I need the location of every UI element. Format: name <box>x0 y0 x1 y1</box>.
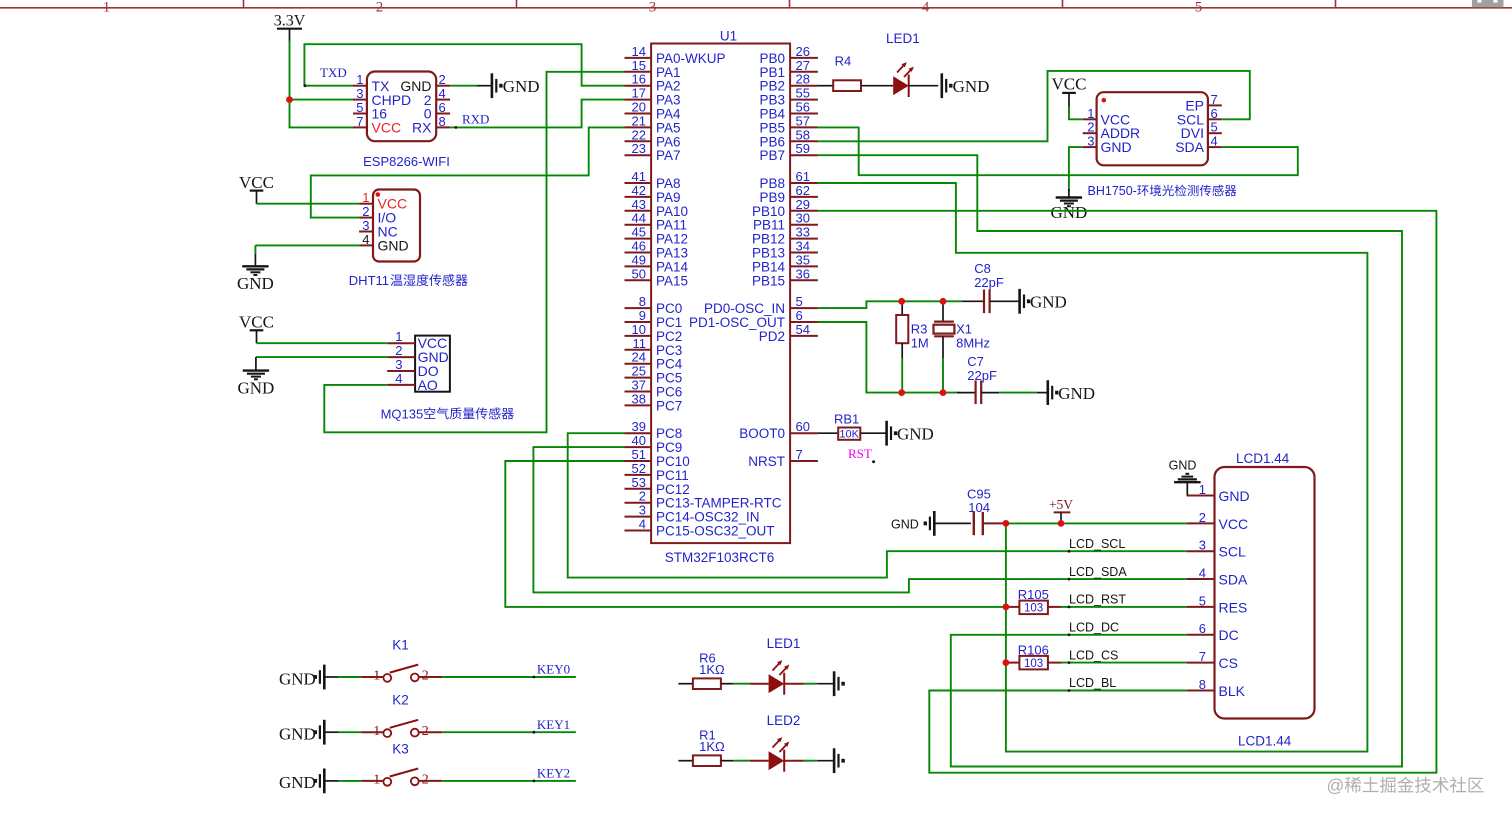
svg-text:BOOT0: BOOT0 <box>739 426 785 441</box>
svg-text:4: 4 <box>922 0 930 16</box>
svg-text:46: 46 <box>632 239 646 254</box>
wire ESP8266 GND pin2 to ground <box>450 85 491 87</box>
svg-text:PA6: PA6 <box>656 134 681 149</box>
svg-text:7: 7 <box>796 447 803 462</box>
pin 16 PA2 of U1 <box>625 72 681 94</box>
crystal X1 8MHz <box>934 301 991 392</box>
svg-text:GND: GND <box>1058 384 1095 403</box>
svg-text:PB5: PB5 <box>759 120 785 135</box>
svg-text:10: 10 <box>632 322 646 337</box>
svg-text:K3: K3 <box>392 741 409 756</box>
ground GND below DHT11 <box>237 266 274 293</box>
svg-text:TXD: TXD <box>320 65 347 80</box>
pin 4 of MQ135 <box>387 371 415 386</box>
component label DHT11温湿度传感器 <box>349 273 468 288</box>
svg-text:103: 103 <box>1024 603 1043 615</box>
pin 1 of ESP8266 <box>353 72 367 87</box>
svg-text:3: 3 <box>395 357 402 372</box>
svg-text:PA11: PA11 <box>656 218 687 233</box>
svg-text:KEY2: KEY2 <box>537 766 570 781</box>
wire U1 PB8 to +5V rail loop <box>818 183 1368 752</box>
svg-text:4: 4 <box>395 371 402 386</box>
svg-text:53: 53 <box>632 475 646 490</box>
switch K2 <box>361 693 442 739</box>
pin 3 of ESP8266 <box>353 86 367 101</box>
svg-text:4: 4 <box>1211 134 1218 149</box>
svg-text:PC15-OSC32_OUT: PC15-OSC32_OUT <box>656 524 775 539</box>
svg-text:NRST: NRST <box>748 454 785 469</box>
svg-text:11: 11 <box>633 336 647 351</box>
svg-text:3: 3 <box>1087 134 1094 149</box>
svg-text:KEY1: KEY1 <box>537 717 570 732</box>
svg-text:GND: GND <box>279 773 316 792</box>
resistor RB1 10K <box>834 412 860 441</box>
svg-text:5: 5 <box>356 100 363 115</box>
wire VCC to DHT11 pin 1 <box>257 203 360 205</box>
svg-text:VCC: VCC <box>239 313 274 332</box>
svg-text:PA3: PA3 <box>656 93 681 108</box>
diode LED1 top <box>886 31 920 97</box>
pin 4 SDA of LCD1.44 <box>1187 566 1248 588</box>
svg-text:K1: K1 <box>392 637 409 652</box>
svg-text:PB14: PB14 <box>752 259 786 274</box>
svg-text:SDA: SDA <box>1175 139 1204 155</box>
pin 56 PB4 of U1 <box>759 100 817 122</box>
wire net KEY1 <box>442 731 576 734</box>
svg-text:42: 42 <box>632 183 646 198</box>
svg-text:4: 4 <box>439 86 446 101</box>
ground GND below MQ135 <box>237 371 274 398</box>
pin 2 of BH1750 <box>1083 120 1097 135</box>
wire VCC to MQ135 pin 1 <box>257 342 388 344</box>
svg-text:6: 6 <box>1199 621 1206 636</box>
svg-text:2: 2 <box>362 204 369 219</box>
svg-text:PB1: PB1 <box>759 65 785 80</box>
svg-text:GND: GND <box>378 237 409 253</box>
pin 34 PB13 of U1 <box>752 239 818 261</box>
svg-text:+5V: +5V <box>1049 497 1073 512</box>
wire U1 PB10 to LCD BLK net <box>818 211 1437 773</box>
wire BH1750 GND pin3 to ground <box>1069 147 1083 197</box>
pin 30 PB11 of U1 <box>753 211 818 233</box>
wire ground to C95 <box>934 522 971 524</box>
svg-text:4: 4 <box>1199 566 1206 581</box>
pin 26 PB0 of U1 <box>759 44 817 66</box>
svg-text:PC3: PC3 <box>656 343 682 358</box>
pin 61 PB8 of U1 <box>759 169 817 191</box>
svg-text:16: 16 <box>632 72 646 87</box>
svg-text:PA15: PA15 <box>656 273 688 288</box>
svg-text:7: 7 <box>356 114 363 129</box>
pin 6 DC of LCD1.44 <box>1187 621 1239 643</box>
net label GND at C95 <box>891 518 919 532</box>
pin 24 PC4 of U1 <box>625 350 683 372</box>
power symbol VCC for MQ135 <box>239 313 274 344</box>
svg-text:2: 2 <box>422 669 429 684</box>
svg-text:LCD_SCL: LCD_SCL <box>1069 537 1125 551</box>
svg-text:8MHz: 8MHz <box>956 336 990 351</box>
wire 3.3V rail down to ESP8266 VCC pin 7 <box>290 41 354 128</box>
svg-text:PB11: PB11 <box>753 218 785 233</box>
svg-text:2: 2 <box>1199 510 1206 525</box>
svg-text:50: 50 <box>632 266 646 281</box>
pin 3 of BH1750 <box>1083 134 1097 149</box>
pin 17 PA3 of U1 <box>625 86 681 108</box>
svg-text:57: 57 <box>796 113 810 128</box>
svg-text:BLK: BLK <box>1219 683 1246 699</box>
pin 11 PC3 of U1 <box>625 336 683 358</box>
pin 8 PC0 of U1 <box>625 294 683 316</box>
svg-text:AO: AO <box>418 377 438 393</box>
pin 59 PB7 of U1 <box>759 141 817 163</box>
pin 4 of DHT11 <box>359 232 373 247</box>
pin 54 PD2 of U1 <box>759 322 818 344</box>
svg-text:PC1: PC1 <box>656 315 682 330</box>
switch K3 <box>361 741 442 787</box>
junction dot at R105 <box>1003 604 1010 611</box>
wire R4 to LED1 <box>861 85 893 87</box>
pin 37 PC6 of U1 <box>625 378 683 400</box>
pin 44 PA11 of U1 <box>625 211 688 233</box>
svg-text:LCD_BL: LCD_BL <box>1069 676 1116 690</box>
svg-text:20: 20 <box>632 100 646 115</box>
pin 49 PA14 of U1 <box>625 252 689 274</box>
pin 8 BLK of LCD1.44 <box>1187 677 1246 699</box>
svg-text:40: 40 <box>632 433 646 448</box>
svg-text:7: 7 <box>1199 649 1206 664</box>
svg-text:55: 55 <box>796 86 810 101</box>
svg-text:9: 9 <box>639 308 646 323</box>
wire ground to switch K1 <box>324 676 361 678</box>
svg-text:PB4: PB4 <box>759 107 785 122</box>
junction dot at R106 <box>1003 659 1010 666</box>
svg-text:GND: GND <box>279 669 316 688</box>
svg-text:RXD: RXD <box>462 112 489 127</box>
wire ground to switch K3 <box>324 780 361 782</box>
pin 5 PD0-OSC_IN of U1 <box>704 294 818 316</box>
svg-text:PB0: PB0 <box>759 51 785 66</box>
svg-text:8: 8 <box>639 294 646 309</box>
svg-text:22pF: 22pF <box>974 275 1004 290</box>
svg-text:PB9: PB9 <box>759 190 785 205</box>
svg-text:5: 5 <box>1195 0 1203 16</box>
svg-text:1KΩ: 1KΩ <box>699 739 725 754</box>
component label BH1750-环境光检测传感器 <box>1088 184 1237 198</box>
wire net KEY0 <box>442 676 576 679</box>
svg-text:SCL: SCL <box>1219 544 1246 560</box>
svg-text:22: 22 <box>632 127 646 142</box>
pin 1 GND of LCD1.44 <box>1187 482 1250 504</box>
wire C7 to ground <box>981 392 1047 394</box>
pin 7 of ESP8266 <box>353 114 367 129</box>
svg-text:R4: R4 <box>835 53 852 68</box>
svg-text:PA1: PA1 <box>656 65 681 80</box>
svg-text:PB13: PB13 <box>752 246 785 261</box>
capacitor C7 22pF <box>967 354 997 404</box>
svg-text:29: 29 <box>796 197 810 212</box>
pin 4 of ESP8266 <box>436 86 450 101</box>
svg-text:KEY0: KEY0 <box>537 662 570 677</box>
svg-text:1: 1 <box>373 724 380 739</box>
svg-text:1: 1 <box>103 0 111 16</box>
sensor BH1750 body <box>1097 92 1208 165</box>
svg-text:4: 4 <box>639 517 646 532</box>
pin 38 PC7 of U1 <box>625 391 683 413</box>
svg-text:17: 17 <box>632 86 646 101</box>
svg-text:30: 30 <box>796 211 810 226</box>
svg-text:35: 35 <box>796 252 810 267</box>
svg-text:GND: GND <box>953 77 990 96</box>
svg-text:2: 2 <box>439 72 446 87</box>
pin 25 PC5 of U1 <box>625 364 683 386</box>
wire C95 to +5V junction <box>983 522 1006 524</box>
pin 20 PA4 of U1 <box>625 100 682 122</box>
wire U1 PC8 to LCD SCL net <box>568 433 1187 577</box>
wire net KEY2 <box>442 780 576 783</box>
svg-text:5: 5 <box>796 294 803 309</box>
svg-text:R106: R106 <box>1018 642 1049 657</box>
svg-text:51: 51 <box>632 447 646 462</box>
pin 7 NRST of U1 <box>748 447 818 469</box>
svg-text:GND: GND <box>279 725 316 744</box>
svg-text:2: 2 <box>422 773 429 788</box>
net label LCD_RST <box>1068 593 1127 609</box>
svg-text:RST: RST <box>848 446 872 461</box>
power symbol VCC for DHT11 <box>239 173 274 204</box>
component label MQ135空气质量传感器 <box>381 406 514 421</box>
svg-text:1: 1 <box>373 773 380 788</box>
net label LCD_SDA <box>1068 565 1128 581</box>
svg-text:27: 27 <box>796 58 810 73</box>
svg-text:R105: R105 <box>1018 587 1049 602</box>
wire U1 PD0-OSC_IN to crystal top rail <box>818 301 984 308</box>
net label LCD_BL <box>1068 676 1117 692</box>
wire RB1 to ground <box>860 432 886 434</box>
pin 9 PC1 of U1 <box>625 308 683 330</box>
svg-text:PC0: PC0 <box>656 301 682 316</box>
pin 6 of BH1750 <box>1208 106 1222 121</box>
svg-text:RX: RX <box>412 120 432 136</box>
svg-text:PA10: PA10 <box>656 204 688 219</box>
svg-text:MQ135: MQ135 <box>381 406 424 421</box>
svg-text:56: 56 <box>796 100 810 115</box>
svg-text:R3: R3 <box>911 322 928 337</box>
svg-text:6: 6 <box>1211 106 1218 121</box>
wire U1 PC9 to LCD SDA net <box>533 447 1186 592</box>
pin 8 of ESP8266 <box>436 114 450 129</box>
svg-text:LCD_SDA: LCD_SDA <box>1069 565 1127 579</box>
svg-text:X1: X1 <box>956 322 972 337</box>
svg-text:1: 1 <box>373 669 380 684</box>
pin 5 of ESP8266 <box>353 100 367 115</box>
wire U1 PB5 to BH1750 SDA <box>818 127 1298 175</box>
junction on 3.3V rail at CHPD <box>286 96 293 103</box>
svg-text:1: 1 <box>395 329 402 344</box>
svg-text:PA4: PA4 <box>656 107 681 122</box>
pin 33 PB12 of U1 <box>752 225 818 247</box>
wire +5V rail to LCD VCC pin <box>1006 522 1187 524</box>
ground GND at C8 <box>1020 289 1067 314</box>
capacitor C8 22pF <box>974 261 1004 313</box>
svg-text:28: 28 <box>796 72 810 87</box>
ground GND at K3 <box>279 769 324 794</box>
svg-text:21: 21 <box>632 113 646 128</box>
pin 62 PB9 of U1 <box>759 183 817 205</box>
svg-text:CS: CS <box>1219 655 1238 671</box>
pin 51 PC10 of U1 <box>625 447 690 469</box>
pin 2 VCC of LCD1.44 <box>1187 510 1248 532</box>
svg-text:RB1: RB1 <box>834 412 859 427</box>
ground GND at ESP8266 pin 2 <box>492 73 540 98</box>
net label TXD <box>304 65 347 87</box>
power symbol +5V <box>1049 497 1073 523</box>
svg-text:44: 44 <box>632 211 646 226</box>
pin 7 CS of LCD1.44 <box>1187 649 1238 671</box>
pin 2 of MQ135 <box>387 343 415 358</box>
svg-text:LCD1.44: LCD1.44 <box>1236 451 1290 466</box>
svg-text:PA8: PA8 <box>656 176 681 191</box>
wire LED1 to ground <box>909 85 939 87</box>
svg-text:3: 3 <box>649 0 657 16</box>
sensor MQ135 body <box>415 335 450 393</box>
svg-text:2: 2 <box>639 489 646 504</box>
svg-text:LCD_DC: LCD_DC <box>1069 621 1119 635</box>
wire DHT11 I/O pin2 to U1 PA5 <box>311 127 625 217</box>
ground GND at LED1 <box>942 73 990 98</box>
svg-text:2: 2 <box>395 343 402 358</box>
svg-text:PA13: PA13 <box>656 246 688 261</box>
svg-text:1: 1 <box>362 190 369 205</box>
svg-text:RES: RES <box>1219 599 1248 615</box>
svg-text:49: 49 <box>632 252 646 267</box>
svg-text:VCC: VCC <box>372 120 402 136</box>
junction dots on +5V rail <box>1003 520 1065 527</box>
svg-text:PB15: PB15 <box>752 273 785 288</box>
svg-text:2: 2 <box>376 0 384 16</box>
wire U1 PB6 to BH1750 SCL <box>818 71 1250 141</box>
pin 42 PA9 of U1 <box>625 183 681 205</box>
svg-text:PC11: PC11 <box>656 468 689 483</box>
power symbol 3.3V <box>274 13 306 43</box>
svg-text:PC9: PC9 <box>656 440 682 455</box>
svg-text:PB10: PB10 <box>752 204 785 219</box>
svg-text:PB6: PB6 <box>759 134 785 149</box>
svg-text:25: 25 <box>632 364 646 379</box>
pin 22 PA6 of U1 <box>625 127 681 149</box>
wire R6 to LED1 <box>721 683 769 685</box>
svg-text:GND: GND <box>1050 203 1087 222</box>
wire R106 to LCD CS pin <box>1048 662 1187 664</box>
pin 5 RES of LCD1.44 <box>1187 593 1248 615</box>
svg-text:PC10: PC10 <box>656 454 690 469</box>
svg-text:PA7: PA7 <box>656 148 681 163</box>
diode LED2 <box>767 713 801 772</box>
wire net TXD: ESP8266 TX pin1 to U1 PA2 <box>304 44 624 85</box>
svg-text:3: 3 <box>356 86 363 101</box>
wire net RXD: ESP8266 RX pin8 to U1 PA3 <box>450 100 624 128</box>
svg-text:3: 3 <box>639 503 646 518</box>
pin 43 PA10 of U1 <box>625 197 689 219</box>
svg-text:62: 62 <box>796 183 810 198</box>
svg-text:DHT11: DHT11 <box>349 273 389 288</box>
svg-text:26: 26 <box>796 44 810 59</box>
svg-text:PB2: PB2 <box>759 79 785 94</box>
svg-text:BH1750-: BH1750- <box>1088 184 1137 198</box>
net label LCD_CS <box>1068 648 1119 664</box>
wire VCC to BH1750 pin 1 <box>1069 107 1083 120</box>
svg-text:4: 4 <box>362 232 369 247</box>
svg-text:10K: 10K <box>839 428 859 440</box>
svg-text:PB8: PB8 <box>759 176 785 191</box>
svg-text:PA12: PA12 <box>656 232 688 247</box>
svg-text:PC5: PC5 <box>656 371 682 386</box>
pin 46 PA13 of U1 <box>625 239 689 261</box>
svg-text:8: 8 <box>1199 677 1206 692</box>
wire LED2 to ground <box>784 760 833 762</box>
sensor DHT11 body <box>373 190 420 262</box>
svg-text:DC: DC <box>1219 627 1239 643</box>
svg-text:103: 103 <box>1024 658 1043 670</box>
pin 10 PC2 of U1 <box>625 322 683 344</box>
svg-text:GND: GND <box>503 77 540 96</box>
svg-text:34: 34 <box>796 239 810 254</box>
pin 3 of DHT11 <box>359 218 373 233</box>
capacitor C95 104 <box>967 487 991 536</box>
svg-text:8: 8 <box>439 114 446 129</box>
svg-text:52: 52 <box>632 461 646 476</box>
svg-text:PA5: PA5 <box>656 120 681 135</box>
svg-text:3: 3 <box>1199 538 1206 553</box>
pin 3 of MQ135 <box>387 357 415 372</box>
svg-text:22pF: 22pF <box>967 368 997 383</box>
resistor R6 1K <box>678 651 725 690</box>
svg-text:U1: U1 <box>720 29 737 44</box>
svg-text:39: 39 <box>632 419 646 434</box>
junction dots on crystal rails <box>898 298 946 396</box>
pin 53 PC12 of U1 <box>625 475 690 497</box>
wire R105 to LCD RES pin <box>1048 606 1187 608</box>
svg-text:PC12: PC12 <box>656 482 690 497</box>
ground symbol at C95 <box>924 511 935 536</box>
svg-text:59: 59 <box>796 141 810 156</box>
ground GND at C7 <box>1048 380 1095 405</box>
svg-text:5: 5 <box>1199 593 1206 608</box>
svg-text:PB7: PB7 <box>759 148 785 163</box>
pin 7 of BH1750 <box>1208 92 1222 107</box>
svg-text:VCC: VCC <box>239 173 274 192</box>
svg-text:PD0-OSC_IN: PD0-OSC_IN <box>704 301 785 316</box>
svg-text:1KΩ: 1KΩ <box>699 662 725 677</box>
pin 58 PB6 of U1 <box>759 127 817 149</box>
svg-text:5: 5 <box>1211 120 1218 135</box>
svg-text:PC13-TAMPER-RTC: PC13-TAMPER-RTC <box>656 496 782 511</box>
svg-text:1: 1 <box>356 72 363 87</box>
svg-text:7: 7 <box>1211 92 1218 107</box>
module ESP8266-WIFI body <box>363 72 450 170</box>
pin 29 PB10 of U1 <box>752 197 818 219</box>
wire U1 PD1-OSC_OUT to crystal bottom rail <box>818 322 976 393</box>
wire U1 PB7 to LCD DC net <box>818 155 1402 766</box>
net label LCD_DC <box>1068 621 1119 637</box>
pin 23 PA7 of U1 <box>625 141 681 163</box>
svg-text:104: 104 <box>968 500 990 515</box>
net label GND above LCD pin 1 <box>1169 458 1197 472</box>
power symbol VCC for BH1750 <box>1052 75 1087 109</box>
module LCD1.44 body <box>1215 451 1315 749</box>
svg-text:GND: GND <box>1030 293 1067 312</box>
pin 2 PC13-TAMPER-RTC of U1 <box>625 489 782 511</box>
svg-text:43: 43 <box>632 197 646 212</box>
